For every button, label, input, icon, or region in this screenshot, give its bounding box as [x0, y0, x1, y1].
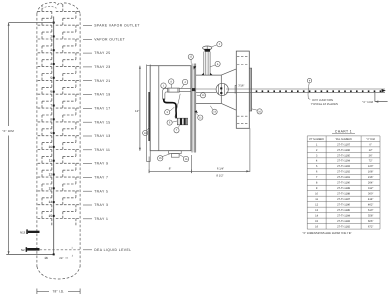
svg-text:510”: 510” — [368, 209, 373, 212]
svg-text:27-TI-1194: 27-TI-1194 — [337, 160, 350, 163]
hot junction point 15 — [49, 214, 55, 218]
svg-text:120”: 120” — [368, 165, 373, 168]
nozzle N13 — [20, 229, 40, 234]
svg-text:264”: 264” — [368, 182, 373, 185]
svg-text:312”: 312” — [368, 187, 373, 190]
detail: stud base weld — [201, 73, 212, 75]
detail: 7/16" dimension bracket — [235, 84, 244, 93]
nozzle N2 — [21, 247, 40, 252]
svg-text:14: 14 — [49, 200, 53, 204]
svg-text:12: 12 — [49, 173, 53, 177]
chart row 5 — [316, 165, 373, 168]
detail: long leader curve — [175, 94, 180, 118]
dimension 78" I.D. — [37, 289, 80, 295]
label leader: SPARE VAPOR OUTLET — [83, 24, 140, 28]
balloon 16 — [180, 155, 189, 162]
chart row 1 — [316, 143, 372, 146]
svg-text:TRAY 23: TRAY 23 — [94, 65, 110, 69]
column shell left wall — [36, 14, 38, 268]
svg-text:CHART 1: CHART 1 — [335, 129, 352, 133]
hot junction point 2 — [50, 34, 54, 38]
chart row 11 — [315, 198, 373, 201]
label leader: TRAY 3 — [83, 203, 108, 207]
hot junction point 16 (bottom bend) — [44, 253, 54, 259]
svg-text:SPARE VAPOR OUTLET: SPARE VAPOR OUTLET — [94, 24, 140, 28]
chart header — [309, 138, 375, 141]
svg-text:27-TI-1197: 27-TI-1197 — [337, 143, 350, 146]
svg-text:13: 13 — [315, 209, 318, 212]
svg-text:9: 9 — [50, 131, 52, 135]
svg-text:15: 15 — [49, 214, 53, 218]
chart row 8 — [316, 182, 373, 185]
svg-text:“X” DIM: “X” DIM — [366, 138, 375, 141]
hot junction point 1 — [53, 22, 55, 24]
balloon 3 — [165, 107, 175, 115]
svg-text:TAG NUMBER: TAG NUMBER — [335, 138, 352, 141]
svg-text:12”: 12” — [369, 149, 373, 152]
svg-text:TRAY 13: TRAY 13 — [94, 134, 110, 138]
label leader: TRAY 19 — [83, 93, 111, 97]
hot junction note text — [311, 98, 338, 106]
hot junction point 5 — [50, 76, 54, 80]
svg-text:PT NUMBER: PT NUMBER — [309, 138, 324, 141]
column bottom head — [37, 267, 80, 280]
svg-text:16: 16 — [315, 226, 318, 229]
balloon 6 — [210, 61, 220, 67]
svg-text:6: 6 — [50, 90, 52, 94]
label leader: TRAY 17 — [83, 107, 111, 111]
svg-text:10: 10 — [315, 193, 318, 196]
probe rod end arrow — [382, 89, 386, 92]
svg-text:27-TI-1193: 27-TI-1193 — [337, 165, 350, 168]
detail: ribbed gland block — [177, 118, 187, 125]
detail: capillary tube elbow — [163, 88, 168, 99]
column top head with break line — [37, 3, 80, 14]
svg-text:16: 16 — [44, 256, 48, 260]
svg-text:27-TI-1187: 27-TI-1187 — [337, 198, 350, 201]
balloon 2 — [211, 42, 222, 47]
chart row 3 — [316, 154, 373, 157]
balloon 15 — [158, 154, 171, 161]
svg-text:606”: 606” — [368, 220, 373, 223]
svg-text:8”: 8” — [169, 167, 172, 171]
svg-text:N13: N13 — [20, 231, 26, 235]
DEA liquid level line — [40, 249, 80, 251]
hot junction point 9 — [50, 131, 54, 135]
hot junction note balloon — [307, 78, 311, 99]
detail: vessel wall section — [147, 65, 151, 162]
balloon 11 arrowhead — [195, 110, 198, 113]
balloon 7 — [174, 125, 180, 133]
svg-text:27-TI-1192: 27-TI-1192 — [337, 171, 350, 174]
column shell right wall — [79, 14, 81, 268]
svg-text:558”: 558” — [368, 215, 373, 218]
balloon 11 — [195, 112, 203, 120]
svg-text:27-TI-1184: 27-TI-1184 — [337, 215, 350, 218]
right "X" DIM dimension — [362, 93, 387, 104]
detail: bottom plug flange — [169, 151, 182, 158]
svg-text:24”: 24” — [59, 256, 63, 260]
detail: big flange — [236, 51, 249, 128]
label leader: TRAY 1 — [83, 217, 108, 221]
svg-text:27-TI-1188: 27-TI-1188 — [337, 193, 350, 196]
svg-text:7/16”: 7/16” — [238, 84, 244, 87]
svg-text:5: 5 — [50, 76, 52, 80]
chart row 6 — [316, 171, 373, 174]
svg-text:7: 7 — [50, 104, 52, 108]
svg-text:27-TI-1189: 27-TI-1189 — [337, 187, 350, 190]
chart row 4 — [316, 160, 373, 163]
balloon 10 — [252, 109, 262, 114]
balloon 8 — [169, 79, 174, 88]
chart row 13 — [315, 209, 373, 212]
svg-text:8 1/2”: 8 1/2” — [216, 173, 223, 177]
detail: probe line through assembly — [196, 89, 385, 92]
label leader: TRAY 23 — [83, 65, 111, 69]
svg-text:TRAY 19: TRAY 19 — [94, 93, 110, 97]
svg-text:11: 11 — [315, 198, 318, 201]
label leader: TRAY 7 — [83, 176, 108, 180]
svg-text:27-TI-1196: 27-TI-1196 — [337, 149, 350, 152]
hot junction point 4 — [50, 62, 54, 66]
hot junction point 3 — [50, 48, 54, 52]
detail: capillary tube (thick) — [164, 99, 176, 119]
svg-text:TRAY 15: TRAY 15 — [94, 120, 110, 124]
chart row 15 — [315, 220, 373, 223]
tray internals (dashed serpentine pattern) — [38, 5, 80, 226]
svg-text:VAPOR OUTLET: VAPOR OUTLET — [94, 37, 125, 41]
svg-text:0”: 0” — [369, 143, 371, 146]
detail: packing gland circle — [216, 83, 228, 95]
hot junction point 7 — [50, 104, 54, 108]
svg-text:72”: 72” — [369, 160, 373, 163]
svg-text:6 1/4”: 6 1/4” — [217, 167, 224, 171]
hot junction point 12 — [49, 173, 55, 177]
svg-text:12: 12 — [315, 204, 318, 207]
svg-text:27-TI-1191: 27-TI-1191 — [337, 176, 350, 179]
svg-text:12”: 12” — [135, 109, 139, 113]
svg-text:414”: 414” — [368, 198, 373, 201]
svg-text:N2: N2 — [21, 248, 25, 252]
label leader: TRAY 21 — [83, 79, 111, 83]
balloon 5 — [167, 120, 177, 125]
svg-text:27-TI-1195: 27-TI-1195 — [337, 154, 350, 157]
hot junction point 10 — [49, 145, 55, 149]
left "X" DIM dimension line — [2, 23, 54, 255]
balloon 14 — [210, 106, 217, 115]
svg-text:10: 10 — [49, 145, 53, 149]
svg-text:“X” DIM: “X” DIM — [2, 129, 14, 133]
svg-text:27-TI-1183: 27-TI-1183 — [337, 220, 350, 223]
svg-text:TRAY 3: TRAY 3 — [94, 203, 108, 207]
svg-text:36”: 36” — [369, 154, 373, 157]
svg-text:2: 2 — [50, 34, 52, 38]
detail: main body — [150, 66, 191, 151]
label leader: TRAY 5 — [83, 189, 108, 193]
chart row 12 — [315, 204, 373, 207]
svg-text:DEA LIQUID LEVEL: DEA LIQUID LEVEL — [94, 248, 131, 252]
detail: flange back hub — [249, 68, 251, 111]
thermocouple probe centerline inside column — [6, 17, 53, 255]
svg-text:27-TI-1186: 27-TI-1186 — [337, 204, 350, 207]
detail: top stud with oval cap — [203, 46, 212, 75]
svg-text:462”: 462” — [368, 204, 373, 207]
chart table grid — [307, 136, 380, 229]
svg-text:TRAY 1: TRAY 1 — [94, 217, 108, 221]
chart row 10 — [315, 193, 373, 196]
chart row 7 — [316, 176, 373, 179]
svg-text:13: 13 — [49, 186, 53, 190]
svg-text:TRAY 25: TRAY 25 — [94, 51, 110, 55]
label leader: TRAY 25 — [83, 51, 111, 55]
svg-text:TRAY 17: TRAY 17 — [94, 107, 110, 111]
svg-text:360”: 360” — [368, 193, 373, 196]
svg-text:11: 11 — [49, 159, 53, 163]
label leader: TRAY 15 — [83, 120, 111, 124]
detail: compression fitting — [168, 88, 191, 92]
chart row 14 — [315, 215, 373, 218]
hot junction point 8 — [50, 117, 54, 121]
svg-text:TRAY 11: TRAY 11 — [94, 148, 110, 152]
svg-text:216”: 216” — [368, 176, 373, 179]
svg-text:“X” DIMENSIONS ARE FROM THE TI: “X” DIMENSIONS ARE FROM THE TIP — [302, 231, 351, 235]
chart row 2 — [316, 149, 373, 152]
chart title — [332, 129, 355, 133]
detail bottom dimensions 8", 6 1/4", 8 1/2" — [149, 128, 250, 177]
detail: reducing cone — [221, 69, 236, 110]
probe rod hot junction squares — [256, 90, 382, 92]
svg-text:“X” DIM: “X” DIM — [362, 100, 374, 104]
balloon 1 — [161, 83, 167, 88]
svg-text:TRAY 7: TRAY 7 — [94, 176, 108, 180]
balloon 10 — [197, 93, 206, 98]
svg-text:8: 8 — [50, 117, 52, 121]
hot junction point 6 — [50, 90, 54, 94]
svg-text:14: 14 — [315, 215, 318, 218]
hot junction point 14 — [49, 200, 55, 204]
label leader: VAPOR OUTLET — [83, 37, 125, 41]
hot junction point 11 — [49, 159, 55, 163]
label leader: DEA LIQUID LEVEL — [83, 248, 131, 252]
svg-text:78” I.D.: 78” I.D. — [52, 290, 64, 294]
svg-text:168”: 168” — [368, 171, 373, 174]
svg-text:4: 4 — [50, 62, 52, 66]
detail: 12" vertical dimension — [135, 66, 141, 151]
svg-text:27-TI-1190: 27-TI-1190 — [337, 182, 350, 185]
balloon 12 — [188, 54, 193, 63]
label leader: TRAY 11 — [83, 148, 110, 152]
detail: spool piece — [196, 75, 222, 103]
svg-text:TYPICAL 16 PLACES: TYPICAL 16 PLACES — [311, 102, 338, 106]
dimension 24 1/2" at probe exit — [59, 247, 74, 260]
chart row 16 — [315, 226, 373, 229]
svg-text:15: 15 — [315, 220, 318, 223]
svg-text:TRAY 9: TRAY 9 — [94, 162, 108, 166]
svg-text:TRAY 21: TRAY 21 — [94, 79, 110, 83]
svg-text:27-TI-1182: 27-TI-1182 — [337, 226, 350, 229]
svg-text:TRAY 5: TRAY 5 — [94, 189, 108, 193]
hot junction point 13 — [49, 186, 55, 190]
chart row 9 — [316, 187, 373, 190]
balloon 13 — [143, 127, 150, 136]
svg-text:27-TI-1185: 27-TI-1185 — [337, 209, 350, 212]
svg-text:672”: 672” — [368, 226, 373, 229]
svg-text:3: 3 — [50, 48, 52, 52]
detail: flange plates and gasket — [192, 64, 196, 153]
balloon 4 — [182, 79, 188, 88]
chart footnote — [302, 231, 351, 235]
label leader: TRAY 9 — [83, 162, 108, 166]
label leader: TRAY 13 — [83, 134, 111, 138]
